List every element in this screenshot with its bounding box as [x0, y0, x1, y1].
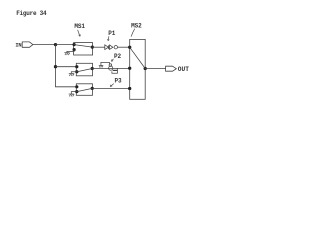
switch MS2 contact 1: [128, 46, 131, 49]
phase shifter P2 electrode bar: [113, 70, 118, 71]
leader arrow P1: [107, 36, 109, 40]
switch MS2 contact 2: [128, 67, 131, 70]
svg-text:P3: P3: [115, 78, 123, 85]
wire P2 gate to ground: [101, 62, 110, 65]
phase shifter P1 diode D2: [110, 45, 113, 49]
switch S2 box: [76, 63, 92, 76]
node B junction dot: [54, 65, 57, 68]
leader arrow P3: [110, 84, 114, 87]
ground G3: [69, 94, 74, 96]
switch MS1 blade: [74, 45, 92, 48]
IN terminal tag: [22, 42, 33, 47]
wire bus elbow to switch S3 input: [55, 86, 77, 88]
svg-text:P1: P1: [108, 30, 116, 37]
switch S3 input contact: [75, 85, 78, 88]
wire node A to MS1 input: [56, 44, 75, 46]
switch MS2 blade: [130, 47, 146, 68]
wire S2 ground stub: [71, 72, 77, 74]
wire input bus vertical: [55, 45, 57, 87]
ground G1: [64, 53, 69, 55]
switch S2 common contact: [91, 67, 94, 70]
wire P1 to MS2 contact 1: [118, 46, 130, 48]
wire IN to node A: [33, 44, 56, 46]
switch S3 ground contact: [75, 90, 78, 93]
leader line MS2: [131, 29, 135, 37]
svg-text:P2: P2: [114, 53, 122, 60]
switch MS2 box: [130, 39, 146, 99]
switch S2 blade: [77, 69, 92, 72]
switch S2 input contact: [75, 65, 78, 68]
switch MS1 box: [74, 43, 93, 55]
phase shifter P2 MEMS body circle: [109, 66, 113, 70]
switch MS1 ground contact: [73, 48, 76, 51]
switch MS2 common contact: [144, 67, 147, 70]
leader arrow MS1: [78, 30, 81, 36]
switch S2 ground contact: [75, 70, 78, 73]
switch MS1 pole contact (input): [73, 43, 76, 46]
svg-text:OUT: OUT: [178, 66, 190, 73]
svg-text:IN: IN: [15, 43, 21, 49]
svg-text:MS1: MS1: [74, 23, 85, 30]
phase shifter P2 MEMS membrane small circle: [109, 64, 112, 67]
wire MS1 common to P1: [92, 46, 105, 48]
phase shifter P1 bubble: [114, 46, 117, 49]
OUT terminal tag: [166, 66, 177, 71]
wire MS2 common to OUT: [145, 68, 165, 70]
switch MS2 contact 3: [128, 87, 131, 90]
wire S3 ground stub: [71, 92, 77, 94]
wire MS1 ground stub: [67, 50, 74, 53]
wire P2 electrode hook: [112, 68, 118, 73]
phase shifter P1 diode D1 cathode bar: [108, 45, 110, 49]
switch S3 common contact: [91, 87, 94, 90]
switch S3 box: [76, 84, 92, 96]
svg-text:MS2: MS2: [131, 23, 142, 30]
switch MS1 common contact: [91, 46, 94, 49]
ground G2: [69, 74, 74, 76]
wire S2 common to P2 to MS2 contact 2: [92, 67, 130, 69]
leader arrow P2: [111, 59, 113, 61]
phase shifter P2 ground: [99, 65, 103, 67]
node A junction dot: [54, 43, 57, 46]
wire S3 common P3 line to MS2 contact 3: [92, 87, 130, 89]
phase shifter P1 diode D1: [105, 45, 109, 50]
svg-text:Figure 34: Figure 34: [16, 10, 47, 17]
switch S3 blade: [77, 88, 92, 91]
wire node B to switch S2 input: [56, 66, 78, 68]
